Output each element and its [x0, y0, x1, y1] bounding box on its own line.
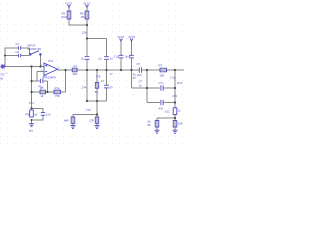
svg-text:a?: a? — [101, 79, 105, 83]
capacitor C12 plates on x106 branch — [104, 85, 109, 88]
svg-text:E?2: E?2 — [177, 81, 182, 85]
wire — [86, 25, 88, 56]
wire — [42, 116, 44, 121]
svg-text:47u: 47u — [159, 106, 164, 110]
svg-text:2u: 2u — [99, 56, 103, 60]
svg-text:2?0: 2?0 — [173, 94, 178, 98]
power symbol +15V top left — [68, 5, 71, 8]
resistor R17 box x31 — [30, 110, 34, 117]
op-amp U1 — [44, 63, 58, 75]
junction — [64, 69, 66, 71]
resistor R9 box — [67, 11, 71, 19]
svg-text:B?: B? — [30, 129, 34, 133]
wire — [32, 107, 44, 109]
svg-text:VCC?: VCC? — [65, 1, 72, 5]
wire — [65, 70, 67, 92]
wire — [142, 69, 184, 71]
svg-text:IN: IN — [0, 77, 3, 81]
junction — [96, 69, 98, 71]
svg-text:2?4: 2?4 — [82, 86, 87, 90]
wire — [106, 70, 108, 85]
svg-text:106: 106 — [178, 122, 183, 126]
wire — [106, 39, 108, 57]
wire — [174, 115, 176, 131]
wire — [86, 70, 88, 101]
wire — [132, 87, 161, 89]
wire — [31, 67, 33, 109]
wire — [2, 66, 44, 68]
svg-text:5m4: 5m4 — [125, 54, 131, 58]
junction — [86, 100, 88, 102]
wire — [32, 119, 44, 121]
capacitor C9 plates on x87 — [85, 57, 90, 60]
capacitor C1 plates — [18, 46, 20, 50]
wire — [29, 48, 31, 54]
wire — [69, 24, 87, 26]
svg-text:VCC?: VCC? — [83, 1, 90, 5]
power symbol V- mid — [130, 39, 133, 43]
svg-text:2u2: 2u2 — [137, 73, 142, 77]
svg-text:1u: 1u — [178, 108, 182, 112]
svg-text:101: 101 — [165, 110, 170, 114]
svg-text:R?: R? — [74, 65, 78, 69]
wire — [86, 60, 88, 70]
svg-text:C?: C? — [137, 62, 141, 66]
wire — [4, 48, 6, 68]
wire — [164, 102, 175, 104]
junction — [174, 69, 176, 71]
junction — [86, 37, 88, 39]
svg-text:8u: 8u — [95, 90, 99, 94]
svg-text:VCC?: VCC? — [117, 35, 124, 39]
capacitor C14 plates on x131 — [129, 55, 134, 58]
svg-text:2u: 2u — [81, 56, 85, 60]
junction — [174, 117, 176, 119]
wire — [31, 120, 33, 124]
wire — [32, 80, 41, 82]
switch S1 — [30, 51, 42, 56]
capacitor C17 plates branch B — [161, 100, 163, 105]
resistor R7 box on output — [72, 68, 77, 72]
svg-text:4?8: 4?8 — [25, 112, 30, 116]
resistor R13 box x174 lower — [173, 121, 177, 128]
wire — [131, 42, 133, 56]
capacitor C16 plates branch A — [161, 85, 163, 90]
svg-text:736: 736 — [55, 94, 60, 98]
svg-text:2 2u: 2 2u — [170, 76, 176, 80]
svg-text:5?: 5? — [133, 76, 137, 80]
resistor R15 box x71 — [71, 117, 75, 123]
svg-text:12k: 12k — [82, 31, 87, 35]
svg-text:0?: 0? — [109, 86, 113, 90]
ground at x174 — [173, 130, 178, 133]
wire — [21, 55, 30, 57]
junction — [96, 113, 98, 115]
wire — [36, 72, 38, 82]
svg-text:6#0: 6#0 — [64, 118, 69, 122]
port J1 input — [0, 64, 5, 69]
svg-text:C?: C? — [16, 42, 20, 46]
wire — [146, 70, 148, 103]
svg-text:1?5: 1?5 — [96, 75, 101, 79]
svg-text:1?6: 1?6 — [86, 108, 91, 112]
junction — [46, 91, 48, 93]
resistor R12 box x174 — [173, 108, 177, 115]
resistor R5 box — [40, 90, 46, 94]
wire — [72, 115, 74, 126]
junction — [86, 69, 88, 71]
svg-text:2?6: 2?6 — [89, 118, 94, 122]
junction — [30, 65, 32, 67]
wire — [174, 70, 176, 108]
wire — [106, 60, 108, 70]
junction — [146, 87, 148, 89]
junction — [146, 69, 148, 71]
wire — [68, 7, 70, 26]
junction — [130, 69, 132, 71]
wire — [86, 7, 88, 26]
wire — [58, 69, 139, 71]
wire — [87, 38, 107, 40]
svg-text:R?: R? — [159, 64, 163, 68]
resistor R10 box — [85, 11, 89, 19]
wire — [42, 108, 44, 112]
wire — [21, 47, 30, 49]
wire — [40, 55, 42, 67]
wire — [5, 55, 18, 57]
svg-text:2k0: 2k0 — [73, 72, 78, 76]
wire — [87, 100, 107, 102]
junction — [174, 87, 176, 89]
resistor R14 box x157 — [155, 121, 159, 128]
junction — [39, 65, 41, 67]
svg-text:VCC?: VCC? — [128, 35, 135, 39]
junction — [30, 80, 32, 82]
power symbol V+ mid — [120, 39, 123, 43]
junction — [30, 91, 32, 93]
svg-text:1=2: 1=2 — [46, 112, 51, 116]
svg-text:C6: C6 — [16, 50, 20, 54]
resistor R16 box x97 — [95, 117, 98, 123]
svg-text:R?6: R?6 — [55, 86, 61, 90]
wire — [164, 87, 175, 89]
ground at x157 — [155, 130, 160, 133]
svg-text:R?: R? — [40, 86, 44, 90]
svg-text:2 2u: 2 2u — [114, 54, 120, 58]
wire — [32, 91, 66, 93]
resistor R6 box — [54, 90, 61, 94]
svg-text:15k: 15k — [81, 15, 86, 19]
wire — [73, 114, 97, 116]
svg-text:U?2: U?2 — [48, 59, 54, 63]
wire — [147, 102, 160, 104]
capacitor C7 feedback plates — [41, 79, 43, 83]
wire — [47, 81, 49, 92]
wire — [5, 47, 18, 49]
junction — [86, 24, 88, 26]
ground at x31 — [29, 124, 34, 127]
svg-text:C?+: C?+ — [159, 81, 165, 85]
junction — [120, 69, 122, 71]
junction — [174, 101, 176, 103]
wire — [44, 80, 48, 82]
junction — [30, 107, 32, 109]
capacitor C13 plates on x121 — [119, 55, 124, 58]
svg-text:66: 66 — [148, 123, 152, 127]
resistor R11 box series — [160, 68, 167, 72]
wire — [131, 70, 133, 88]
svg-text:2?4: 2?4 — [29, 101, 34, 105]
wire — [106, 88, 108, 101]
wire — [37, 71, 44, 73]
wire — [157, 117, 175, 119]
junction — [105, 69, 107, 71]
svg-text:8m6: 8m6 — [62, 15, 68, 19]
svg-text:SHORT-ON: SHORT-ON — [28, 47, 42, 51]
junction — [4, 55, 6, 57]
svg-text:1u: 1u — [139, 83, 143, 87]
capacitor C6 plates — [18, 54, 20, 58]
resistor R20 box on x97 branch — [95, 82, 98, 88]
junction — [31, 119, 33, 121]
svg-text:1u: 1u — [110, 56, 114, 60]
ground at x71 — [71, 126, 76, 129]
power symbol -15V top — [86, 5, 89, 8]
svg-text:100: 100 — [160, 74, 165, 78]
wire — [156, 118, 158, 130]
svg-text:C?: C? — [43, 74, 47, 78]
capacitor C10 plates on x106 — [104, 57, 109, 60]
capacitor C15 series on output — [139, 67, 141, 72]
junction dots — [4, 24, 176, 121]
wire — [120, 42, 122, 56]
junction — [96, 100, 98, 102]
capacitor C18 plates x43 — [41, 113, 45, 116]
wire — [96, 70, 98, 126]
ground at x97 — [95, 126, 100, 129]
